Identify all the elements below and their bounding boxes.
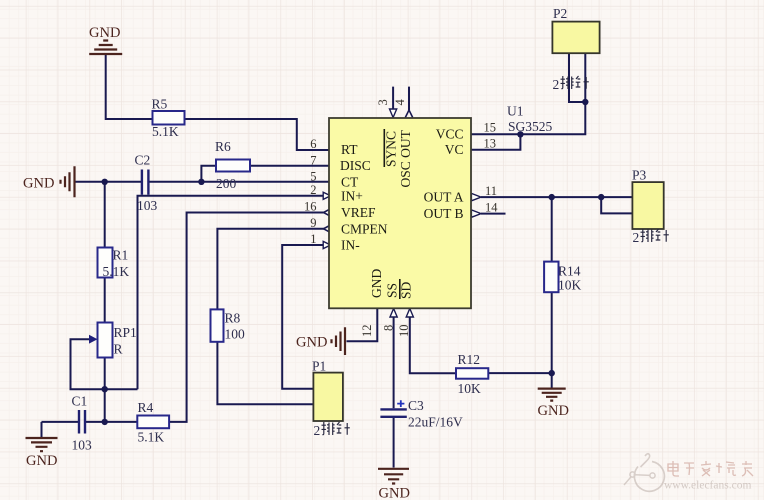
svg-text:R12: R12: [458, 352, 481, 367]
svg-text:5: 5: [310, 170, 316, 184]
svg-text:RP1: RP1: [114, 325, 137, 340]
svg-text:1: 1: [310, 232, 316, 246]
svg-text:www.elecfans.com: www.elecfans.com: [664, 480, 751, 492]
svg-text:R6: R6: [215, 139, 231, 154]
svg-text:10: 10: [397, 325, 411, 338]
svg-text:GND: GND: [369, 269, 384, 298]
svg-text:R4: R4: [138, 400, 154, 415]
svg-text:5.1K: 5.1K: [103, 264, 130, 279]
svg-text:13: 13: [484, 137, 497, 151]
svg-text:DISC: DISC: [340, 158, 371, 173]
svg-text:OSC OUT: OSC OUT: [398, 129, 413, 187]
svg-text:5.1K: 5.1K: [138, 430, 165, 445]
svg-text:U1: U1: [507, 104, 524, 119]
svg-text:103: 103: [137, 198, 158, 213]
svg-text:GND: GND: [26, 453, 57, 469]
svg-text:5.1K: 5.1K: [152, 124, 179, 139]
svg-text:GND: GND: [296, 335, 327, 351]
svg-text:10K: 10K: [558, 278, 582, 293]
svg-text:SYNC: SYNC: [384, 131, 399, 167]
svg-text:2: 2: [553, 77, 560, 92]
svg-text:2: 2: [633, 230, 640, 245]
svg-text:R: R: [114, 342, 123, 357]
svg-text:P2: P2: [553, 6, 567, 21]
svg-text:R8: R8: [225, 311, 241, 326]
svg-text:100: 100: [225, 327, 246, 342]
svg-text:OUT A: OUT A: [424, 190, 464, 205]
svg-text:C1: C1: [72, 394, 88, 409]
svg-text:C2: C2: [135, 153, 151, 168]
svg-text:R5: R5: [152, 97, 168, 112]
svg-text:IN-: IN-: [341, 238, 360, 253]
svg-text:R14: R14: [558, 264, 581, 279]
svg-text:SS: SS: [385, 283, 400, 298]
svg-text:VREF: VREF: [341, 205, 376, 220]
svg-text:GND: GND: [538, 403, 569, 419]
svg-text:OUT B: OUT B: [424, 206, 464, 221]
svg-text:4: 4: [393, 99, 407, 106]
svg-text:CT: CT: [341, 175, 359, 190]
svg-text:IN+: IN+: [341, 189, 363, 204]
svg-text:GND: GND: [89, 25, 120, 41]
svg-text:15: 15: [484, 121, 497, 135]
svg-text:22uF/16V: 22uF/16V: [408, 415, 463, 430]
svg-text:RT: RT: [341, 142, 358, 157]
svg-text:C3: C3: [408, 398, 424, 413]
svg-text:2: 2: [314, 423, 321, 438]
svg-text:12: 12: [360, 325, 374, 338]
svg-text:6: 6: [310, 137, 316, 151]
svg-text:200: 200: [216, 176, 237, 191]
svg-text:CMPEN: CMPEN: [341, 222, 388, 237]
svg-text:P3: P3: [632, 168, 647, 183]
svg-text:9: 9: [310, 216, 316, 230]
svg-text:16: 16: [304, 200, 317, 214]
svg-text:VC: VC: [445, 142, 464, 157]
svg-text:3: 3: [376, 99, 390, 105]
svg-text:GND: GND: [23, 176, 54, 192]
svg-text:11: 11: [485, 184, 497, 198]
svg-text:7: 7: [310, 154, 316, 168]
svg-text:R1: R1: [113, 248, 129, 263]
svg-text:8: 8: [382, 325, 396, 331]
svg-text:P1: P1: [312, 359, 326, 374]
svg-text:GND: GND: [379, 486, 410, 500]
svg-text:2: 2: [310, 183, 316, 197]
svg-text:14: 14: [485, 201, 498, 215]
svg-text:SD: SD: [399, 281, 414, 299]
svg-text:10K: 10K: [458, 381, 482, 396]
svg-text:103: 103: [72, 438, 93, 453]
svg-text:SG3525: SG3525: [508, 119, 553, 134]
svg-text:VCC: VCC: [436, 127, 464, 142]
